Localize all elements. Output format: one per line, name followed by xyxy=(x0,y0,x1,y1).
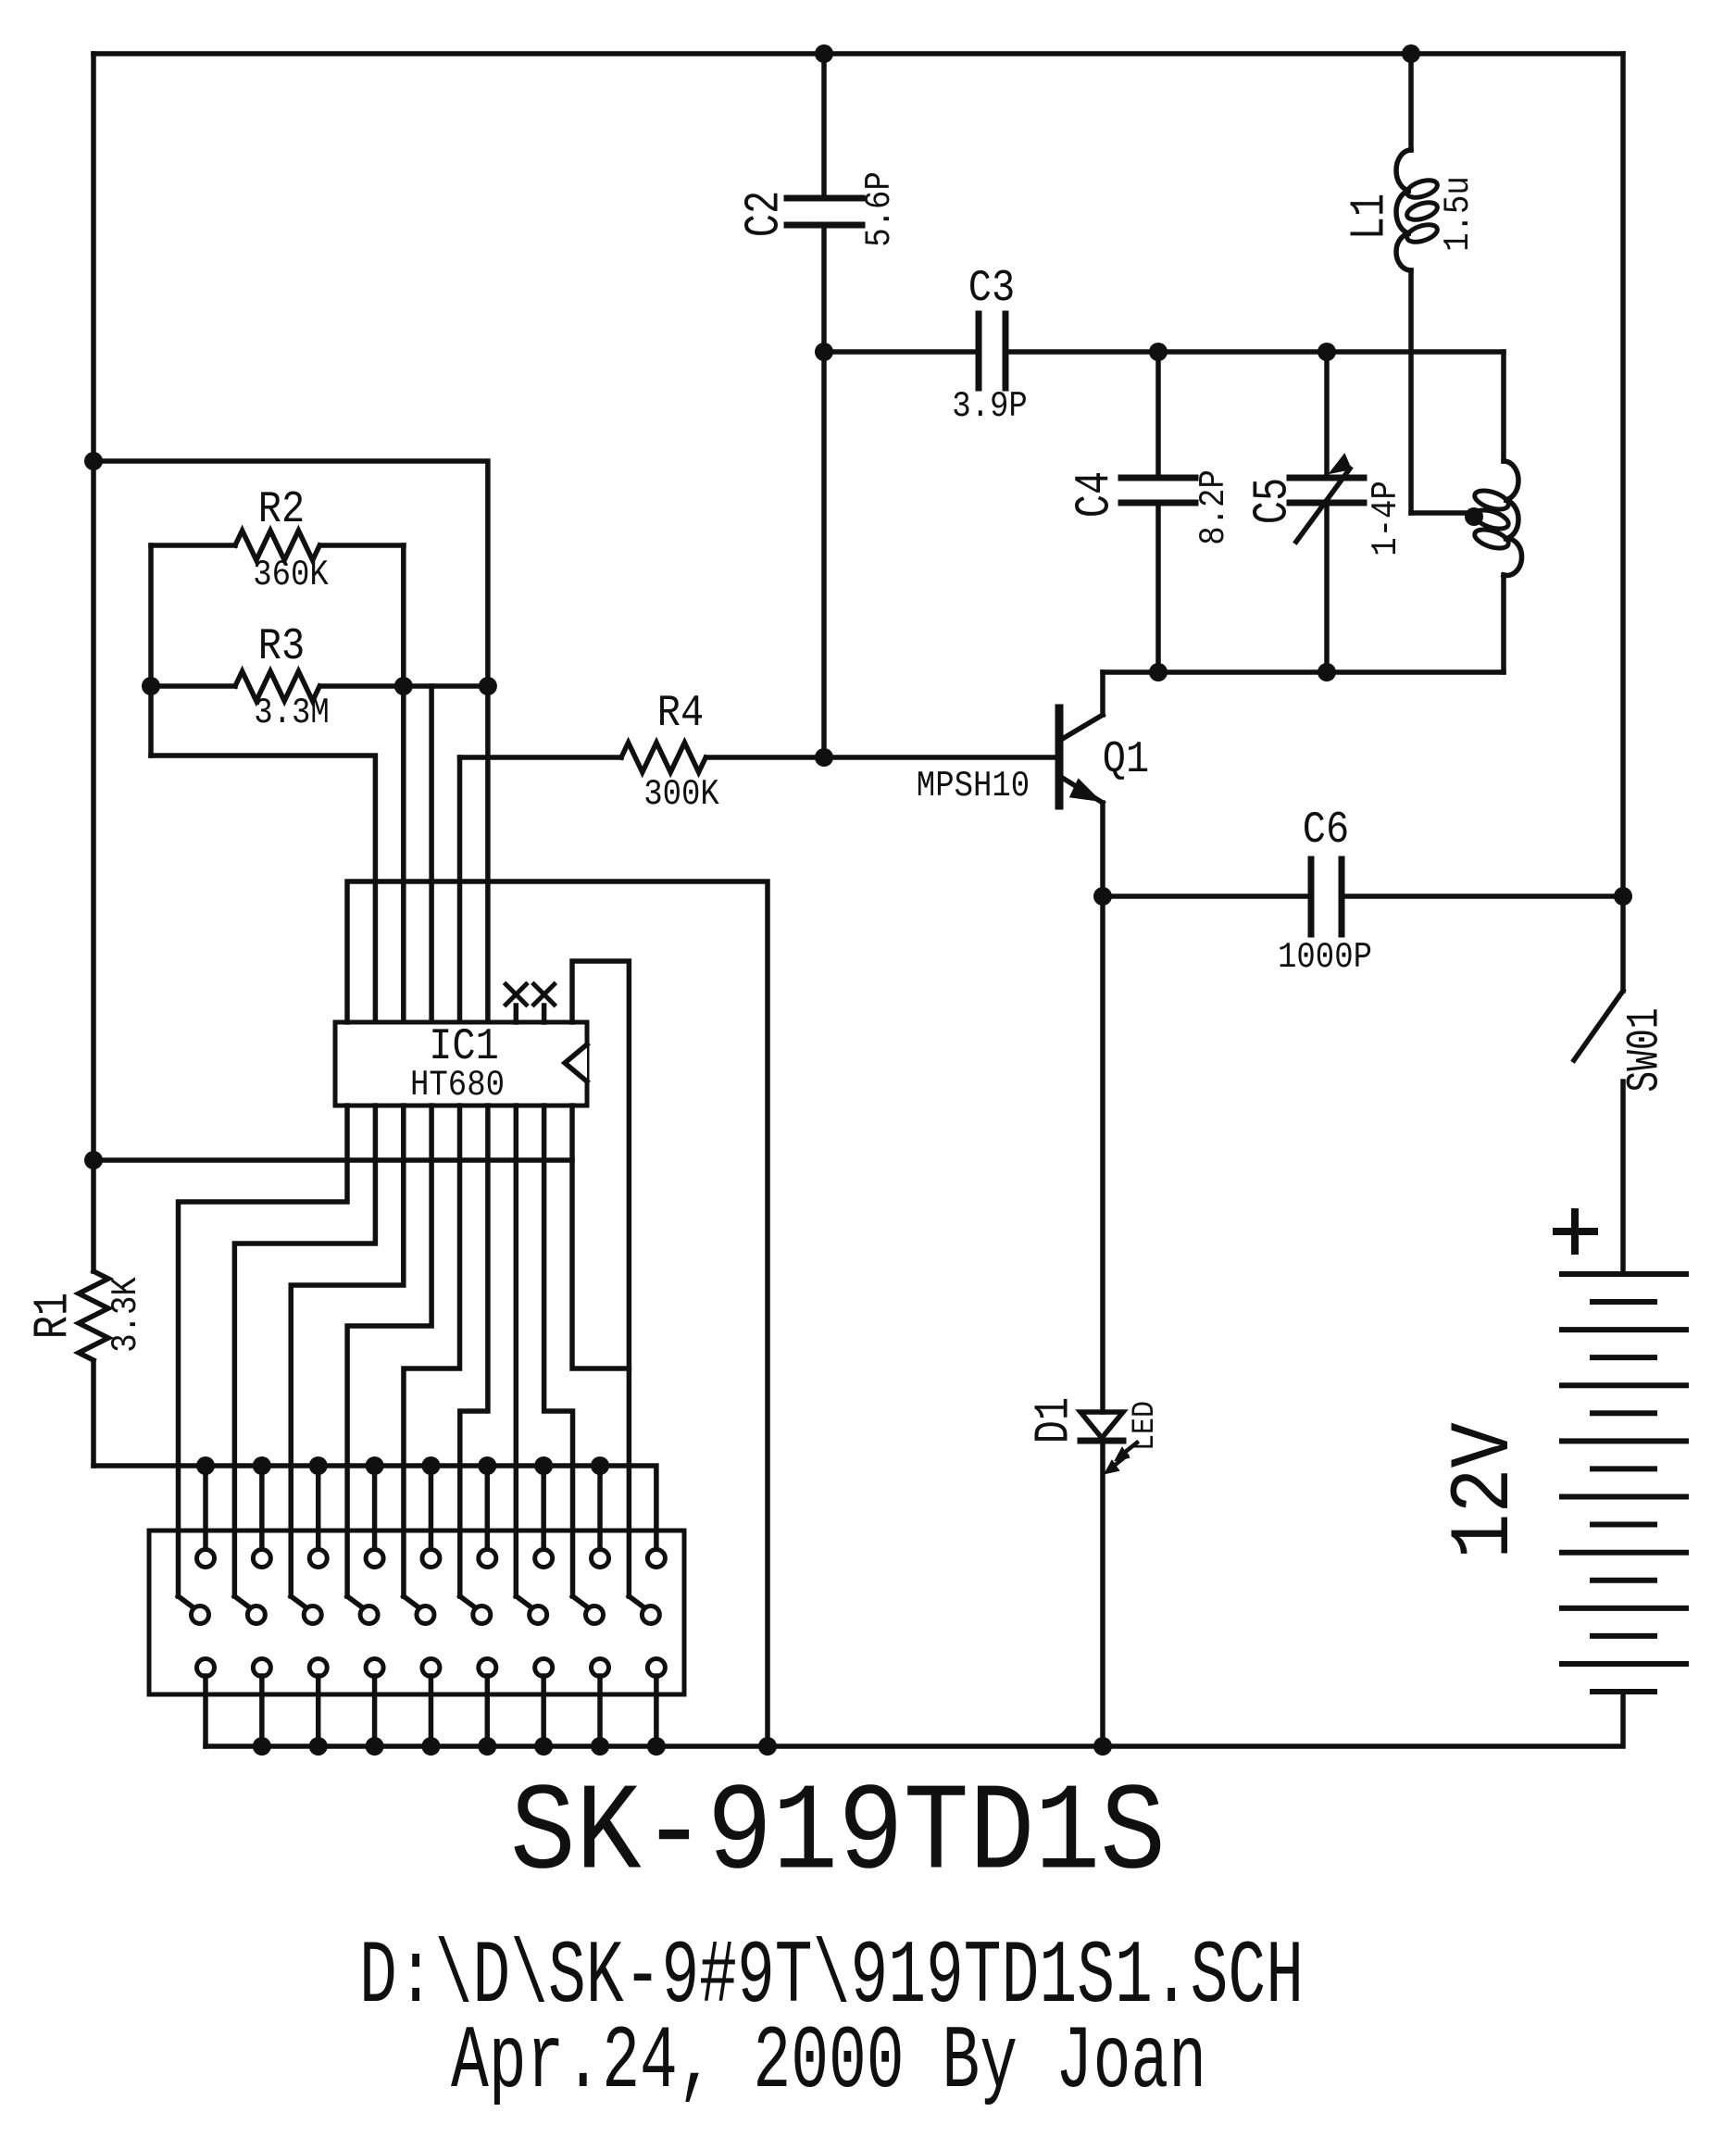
DIP pole 4 lower contact xyxy=(360,1606,378,1624)
wire R3 row to pin5 column xyxy=(404,683,488,689)
diode D1 LED xyxy=(1100,896,1105,1412)
svg-text:5.6P: 5.6P xyxy=(859,171,900,247)
svg-text:3.3M: 3.3M xyxy=(254,693,330,733)
DIP pole 6 top stub xyxy=(485,1466,491,1550)
svg-text:HT680: HT680 xyxy=(410,1065,505,1106)
svg-text:SW01: SW01 xyxy=(1619,1007,1671,1092)
wire left rail lower xyxy=(91,1361,96,1466)
DIP pole 1 blade xyxy=(179,1596,195,1608)
wire R2 left leg xyxy=(148,545,154,756)
svg-text:Apr.24, 2000 By Joan: Apr.24, 2000 By Joan xyxy=(451,2012,1206,2114)
DIP pole 3 bottom stub xyxy=(316,1676,321,1746)
wire DIP common row xyxy=(94,1466,656,1550)
DIP pole 2 top stub xyxy=(259,1466,265,1550)
DIP pole 8 blade xyxy=(573,1596,590,1608)
node L1 top junction xyxy=(1402,44,1420,63)
wire IC pin7 straight to switch blade xyxy=(514,1106,519,1596)
battery BT1 12V xyxy=(1562,1271,1686,1277)
DIP pole 2 blade xyxy=(234,1596,250,1608)
svg-text:MPSH10: MPSH10 xyxy=(917,766,1030,806)
wire IC pin6 staircase to switch blade xyxy=(460,1106,488,1596)
DIP pole 4 bottom contact xyxy=(366,1659,383,1677)
DIP pole 1 bottom stub xyxy=(203,1676,208,1746)
DIP pole 9 top contact xyxy=(647,1550,665,1568)
IC X-pin 8 xyxy=(542,1006,547,1022)
node R3 right / pin3 column xyxy=(394,677,413,695)
node C2/C3 junction xyxy=(815,343,833,361)
wire right rail upper xyxy=(1620,54,1626,896)
DIP pole 5 top stub xyxy=(429,1466,434,1550)
node C6 / right rail xyxy=(1614,887,1632,906)
node DIP pole 8 / bottom rail xyxy=(591,1737,609,1756)
node coil tap xyxy=(1465,507,1483,526)
DIP pole 6 bottom contact xyxy=(479,1659,496,1677)
wire left rail upper xyxy=(91,54,96,1271)
svg-text:L1: L1 xyxy=(1343,194,1398,240)
wire C6 row xyxy=(1103,894,1307,899)
DIP pole 9 blade xyxy=(629,1596,645,1608)
svg-text:R4: R4 xyxy=(657,687,704,738)
DIP pole 2 top contact xyxy=(253,1550,270,1568)
node C2 top junction xyxy=(815,44,833,63)
IC U1 box xyxy=(335,1022,587,1106)
IC pin9 hook over right side xyxy=(572,961,629,1596)
inductor L1 xyxy=(1408,54,1414,150)
wire battery negative to bottom rail xyxy=(206,1692,1623,1746)
capacitor C4 xyxy=(1155,352,1161,478)
node C4 bottom xyxy=(1149,663,1168,681)
DIP pole 5 top contact xyxy=(422,1550,440,1568)
D1 emission arrows xyxy=(1123,1443,1137,1454)
wire IC pin4 staircase to switch blade xyxy=(347,1106,431,1596)
node R3 / pin6 column xyxy=(479,677,497,695)
DIP pole 4 top stub xyxy=(372,1466,378,1550)
DIP pole 4 bottom stub xyxy=(372,1676,378,1746)
wire top V+ rail xyxy=(94,51,1623,56)
node DIP pole 7 / bottom rail xyxy=(534,1737,553,1756)
node DIP pole 5 / bottom rail xyxy=(421,1737,440,1756)
DIP pole 3 bottom contact xyxy=(309,1659,327,1677)
svg-text:SK-919TD1S: SK-919TD1S xyxy=(510,1764,1166,1904)
svg-text:360K: 360K xyxy=(253,555,329,595)
node base row / C2 column xyxy=(815,748,833,767)
svg-text:R3: R3 xyxy=(258,620,305,671)
svg-text:3.3K: 3.3K xyxy=(106,1277,146,1353)
wire bottom rail node D1 xyxy=(1093,1737,1112,1756)
svg-text:1-4P: 1-4P xyxy=(1366,481,1406,556)
DIP pole 8 top stub xyxy=(597,1466,603,1550)
wire IC pin2 staircase to switch blade xyxy=(234,1106,375,1596)
DIP pole 4 blade xyxy=(347,1596,364,1608)
resistor R2 xyxy=(151,543,235,548)
DIP pole 4 top contact xyxy=(366,1550,383,1568)
svg-text:C4: C4 xyxy=(1068,471,1123,518)
wire IC pin1 top to ground column xyxy=(347,881,768,1746)
resistor R4 xyxy=(457,757,463,1022)
wire tank bottom row xyxy=(1103,669,1504,675)
DIP pole 6 blade xyxy=(460,1596,477,1608)
wire IC VSS row xyxy=(94,1157,572,1163)
svg-text:8.2P: 8.2P xyxy=(1193,469,1234,545)
wire IC pin5 staircase to switch blade xyxy=(404,1106,460,1596)
wire IC pin8 staircase to switch blade xyxy=(544,1106,573,1596)
node C5 bottom xyxy=(1318,663,1336,681)
node DIP pole 9 / bottom rail xyxy=(647,1737,666,1756)
svg-text:R2: R2 xyxy=(258,483,305,534)
svg-text:LED: LED xyxy=(1126,1401,1162,1451)
svg-text:3.9P: 3.9P xyxy=(952,386,1028,427)
resistor R1 xyxy=(79,1271,108,1360)
battery plus sign xyxy=(1556,1228,1594,1235)
node R3 left xyxy=(142,677,160,695)
DIP pole 2 lower contact xyxy=(247,1606,265,1624)
DIP pole 2 bottom contact xyxy=(253,1659,270,1677)
node DIP pole 6 / bottom rail xyxy=(478,1737,496,1756)
wire IC pin3 staircase to switch blade xyxy=(291,1106,404,1596)
wire IC pin1 staircase to switch blade xyxy=(179,1106,348,1596)
DIP pole 3 blade xyxy=(291,1596,307,1608)
wire IC pin9 bottom column xyxy=(572,1106,629,1368)
DIP pole 5 lower contact xyxy=(417,1606,434,1624)
wire bottom rail node col829 xyxy=(758,1737,777,1756)
svg-text:C5: C5 xyxy=(1245,478,1301,524)
svg-text:R1: R1 xyxy=(26,1293,81,1339)
svg-text:1.5u: 1.5u xyxy=(1438,176,1479,252)
DIP pole 5 blade xyxy=(404,1596,420,1608)
node DIP pole 4 / bottom rail xyxy=(366,1737,384,1756)
svg-text:C3: C3 xyxy=(968,262,1015,313)
wire pin6 column upper xyxy=(94,461,488,1022)
DIP pole 2 bottom stub xyxy=(259,1676,265,1746)
wire L1 bottom to coil tap xyxy=(1411,510,1474,516)
DIP pole 3 top stub xyxy=(316,1466,321,1550)
IC1 notch xyxy=(565,1044,587,1081)
DIP pole 3 lower contact xyxy=(304,1606,321,1624)
DIP pole 5 bottom contact xyxy=(422,1659,440,1677)
DIP pole 8 bottom stub xyxy=(597,1676,603,1746)
IC X-pin 7 xyxy=(514,1006,519,1022)
DIP pole 7 top stub xyxy=(541,1466,546,1550)
svg-text:C6: C6 xyxy=(1303,804,1349,855)
DIP pole 7 bottom stub xyxy=(541,1676,546,1746)
DIP pole 6 bottom stub xyxy=(485,1676,491,1746)
DIP pole 1 bottom contact xyxy=(197,1659,215,1677)
DIP pole 8 top contact xyxy=(592,1550,609,1568)
capacitor C6 xyxy=(1308,859,1315,934)
wire tank top row xyxy=(1158,349,1504,355)
node left rail / IC VSS wire xyxy=(84,1151,103,1169)
node DIP pole 3 / bottom rail xyxy=(309,1737,328,1756)
wire pin4 column xyxy=(429,686,434,1022)
C5 arrow xyxy=(1296,469,1350,542)
svg-text:300K: 300K xyxy=(643,774,719,815)
wire tank top corner down to coil xyxy=(1501,352,1506,461)
wire pin3 column xyxy=(401,545,406,1022)
DIP pole 3 top contact xyxy=(309,1550,327,1568)
DIP pole 1 lower contact xyxy=(192,1606,209,1624)
capacitor C3 xyxy=(824,349,975,355)
inductor T1 tank coil xyxy=(1504,461,1522,576)
node DIP pole 2 / bottom rail xyxy=(253,1737,271,1756)
DIP pole 1 top contact xyxy=(197,1550,215,1568)
DIP pole 6 top contact xyxy=(479,1550,496,1568)
DIP pole 8 bottom contact xyxy=(592,1659,609,1677)
DIP pole 1 top stub xyxy=(203,1466,208,1550)
node emitter / C6 / D1 xyxy=(1093,887,1112,906)
svg-text:D1: D1 xyxy=(1027,1397,1082,1443)
DIP pole 7 top contact xyxy=(535,1550,553,1568)
svg-text:12V: 12V xyxy=(1438,1422,1533,1559)
node C4 top xyxy=(1149,343,1168,361)
svg-text:1000P: 1000P xyxy=(1278,937,1372,978)
wire C2 junction down to base row xyxy=(821,352,827,757)
capacitor C5 variable xyxy=(1324,352,1330,478)
DIP switch S1 box xyxy=(149,1531,684,1694)
DIP pole 7 lower contact xyxy=(530,1606,547,1624)
wire R2R3 bottom leg xyxy=(151,756,375,1022)
switch SW01 xyxy=(1620,896,1626,991)
DIP pole 9 bottom contact xyxy=(647,1659,665,1677)
DIP pole 5 bottom stub xyxy=(429,1676,434,1746)
capacitor C2 xyxy=(821,54,827,198)
DIP pole 8 lower contact xyxy=(586,1606,604,1624)
node C5 top xyxy=(1318,343,1336,361)
DIP pole 7 blade xyxy=(517,1596,533,1608)
node left rail / R2R3 feed xyxy=(84,452,103,470)
DIP pole 9 lower contact xyxy=(642,1606,659,1624)
transistor Q1 xyxy=(1055,708,1064,806)
DIP pole 6 lower contact xyxy=(473,1606,491,1624)
resistor R3 xyxy=(151,683,235,689)
svg-text:C2: C2 xyxy=(737,191,793,237)
svg-text:Q1: Q1 xyxy=(1103,733,1149,784)
DIP pole 7 bottom contact xyxy=(535,1659,553,1677)
DIP pole 9 bottom stub xyxy=(654,1676,659,1746)
